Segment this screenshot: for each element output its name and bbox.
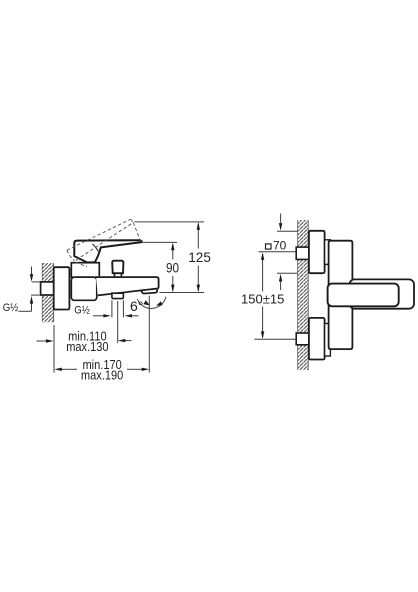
lever handle (left view, solid) [74, 240, 142, 262]
aerator under spout tip [141, 289, 158, 294]
arrowheads side view [261, 223, 282, 339]
spout (left view) [96, 276, 159, 296]
lower escutcheon (side view) [309, 318, 325, 360]
lever (side view) [328, 284, 399, 307]
ext line nub2 centre (150 bottom ref) [254, 338, 296, 340]
G1/2 left: ext lines [32, 281, 40, 283]
150 dim line [262, 254, 264, 292]
faucet body (side view) [329, 241, 353, 349]
ext line spout bottom (90/125 bottom) [160, 292, 205, 294]
outlet edge ext lines [111, 300, 113, 317]
svg-text:6°: 6° [130, 298, 143, 314]
ext line from dashed tip (125 top) [135, 221, 205, 223]
svg-text:max.190: max.190 [81, 368, 124, 383]
ext line esc top [277, 230, 298, 232]
esc bottom arrow shaft [280, 281, 282, 290]
square symbol of square-70 label [266, 244, 272, 249]
lower connector step [325, 324, 331, 357]
min110 dim tails (outside arrows) [37, 340, 47, 342]
lever rear cap (side view) [350, 279, 415, 308]
G1/2 bottom arrows tails [93, 315, 105, 317]
shower hose outlet under spout [112, 293, 124, 298]
125 dim line [197, 224, 199, 249]
svg-text:G½: G½ [74, 304, 90, 317]
wall face ext line [53, 325, 55, 373]
svg-text:90: 90 [166, 261, 179, 276]
outlet centre ext line [117, 301, 119, 343]
G1/2 left: arrow shafts + leader [31, 267, 33, 275]
wall section (side view, hatched) [298, 220, 309, 370]
ext line esc bottom [277, 272, 298, 274]
svg-text:max.130: max.130 [66, 339, 109, 354]
swivel arc [137, 297, 166, 309]
wall supply nub (left view) [41, 282, 54, 295]
upper escutcheon (side view) [309, 231, 325, 273]
lever handle raised position (dashed) [67, 219, 141, 267]
diverter knob on spout [112, 261, 123, 274]
escutcheon (left view) [54, 267, 70, 309]
spout tip centre ext line [148, 296, 150, 373]
lower body block (left view) [71, 277, 97, 300]
knob feet [115, 274, 122, 277]
svg-text:150±15: 150±15 [241, 292, 284, 307]
svg-text:125: 125 [188, 250, 211, 265]
valve housing block (left view) [71, 263, 99, 278]
ext line from solid tip (90 top) [143, 241, 177, 243]
lever inner saddle line [92, 244, 98, 251]
svg-text:70: 70 [273, 238, 287, 252]
ext line nub1 centre (150 top ref) [259, 251, 297, 253]
svg-text:G½: G½ [3, 301, 19, 314]
90 dim line [172, 244, 174, 260]
lower wall nub (side view) [296, 333, 309, 345]
upper wall nub (side view) [296, 247, 309, 259]
wall section (left view, hatched) [42, 263, 53, 322]
arrowheads left view [30, 222, 200, 371]
esc top arrow shaft [280, 214, 282, 224]
min170 dim tails (inside arrows) [61, 368, 77, 370]
upper connector step [325, 240, 331, 265]
